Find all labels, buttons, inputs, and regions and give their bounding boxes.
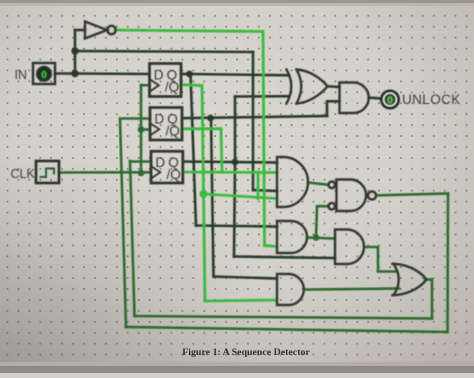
wire node A up to inverter input [74, 30, 77, 74]
XOR gate X1 [287, 70, 292, 104]
wire NAND output run right [376, 194, 448, 196]
svg-text:/Q: /Q [165, 80, 179, 95]
flip-flop FF1 labels [154, 67, 179, 94]
node B junction [71, 47, 78, 54]
node A junction [71, 70, 78, 77]
node J junction (FF1 /Q) [200, 190, 208, 198]
wire FF1 Q to XOR top input [190, 74, 290, 75]
wire clock stub to FF2 clock [141, 128, 150, 131]
wire feedback left vertical to FF2 D [120, 119, 126, 327]
wire node B branch right at y51 [75, 51, 253, 52]
flip-flop FF3 [151, 151, 183, 183]
wire FF3 Q branch to XOR bottom input [235, 95, 289, 98]
wire inverter net vertical [263, 32, 265, 246]
UNLOCK LED [381, 91, 398, 108]
AND gate A4 [335, 230, 364, 265]
svg-text:0: 0 [387, 94, 393, 106]
wire FF3 Q branch down [234, 162, 235, 257]
svg-text:D: D [154, 111, 164, 126]
wire AND3 out branch up to NAND bottom input [316, 206, 328, 237]
node G junction (clock at CLK run) [138, 170, 145, 177]
wire FF3 Q output run [183, 162, 277, 163]
wire AND5 output to OR bottom input [306, 289, 399, 290]
wire FF2 /Q output stub [182, 127, 221, 130]
wire feedback right vertical inner [431, 280, 434, 319]
top photo edge band [0, 0, 474, 3]
wire FF1 /Q output stub [181, 83, 202, 87]
wire OR output stub [425, 278, 432, 281]
wire feedback bottom run outer [126, 327, 448, 332]
node F junction (clock to FF2) [138, 126, 145, 133]
wire short green jog near AND2 [257, 172, 260, 199]
svg-text:/Q: /Q [166, 123, 180, 138]
wire inverter net to AND3 bottom input [265, 246, 278, 247]
wire FF3 /Q and FF2 /Q run to AND2 pin2 [183, 171, 277, 174]
flip-flop FF2 labels [154, 111, 179, 138]
wire XOR output to AND1 [328, 85, 340, 88]
wire node A to FF1 D input [75, 72, 150, 75]
wire AND2 output to NAND top input [308, 183, 328, 185]
wire stub to FF3 D input [130, 160, 151, 163]
inverter U1 [85, 22, 107, 39]
svg-text:UNLOCK: UNLOCK [402, 92, 461, 107]
wire FF1 /Q branch to AND2 pin4 [204, 194, 278, 199]
wire x253 corner to AND2 pin3 [253, 190, 277, 191]
wire FF2 Q step up [327, 101, 340, 116]
node D junction (FF2 Q) [207, 115, 214, 122]
node H junction (AND3 out) [313, 234, 320, 241]
wire FF1 /Q to AND5 bottom input [205, 300, 277, 301]
wire FF2 Q output run [182, 116, 327, 118]
svg-text:/Q: /Q [167, 167, 181, 182]
wire FF2 Q branch down [211, 118, 214, 277]
svg-text:Figure 1: A Sequence Detector: Figure 1: A Sequence Detector [182, 347, 310, 358]
wire FF2 /Q vertical [221, 129, 222, 172]
CLK pin [36, 161, 59, 183]
wire FF1 Q output stub [181, 73, 190, 76]
AND gate A3 [277, 221, 307, 253]
svg-text:D: D [155, 155, 165, 170]
wire clock vertical riser [140, 85, 143, 173]
bottom photo edge band [0, 366, 474, 373]
NAND gate N1 with input bubbles [337, 180, 367, 212]
node C junction (FF1 Q) [186, 71, 193, 78]
wire clock stub to FF1 clock [141, 84, 150, 87]
wire feedback right vertical outer [446, 194, 449, 333]
svg-text:CLK: CLK [11, 167, 36, 181]
svg-text:IN: IN [15, 68, 28, 82]
wire feedback left vertical to FF3 D [130, 161, 135, 316]
flip-flop FF3 labels [155, 155, 180, 182]
wire AND1 output to UNLOCK LED [369, 98, 382, 99]
wire stub to FF2 D input [120, 117, 150, 120]
svg-text:D: D [154, 67, 164, 82]
AND gate A2 (wide) [277, 157, 308, 207]
wire AND4 output step to OR top input [366, 247, 396, 272]
AND gate A5 [277, 274, 304, 305]
wire FF1 Q branch down [191, 74, 197, 226]
wire FF1 Q branch to AND3 top input [196, 226, 277, 227]
flip-flop FF2 [150, 108, 182, 141]
node E junction (FF3 Q) [232, 159, 239, 166]
wire inverter output run [115, 30, 263, 32]
flip-flop FF1 [150, 64, 182, 97]
wire CLK pin run [59, 171, 151, 174]
wire IN pin to node A [55, 72, 75, 75]
svg-text:0: 0 [41, 70, 47, 81]
wire AND3 output to AND4 top input [307, 238, 335, 239]
wire FF3 Q branch up [234, 97, 237, 163]
OR gate O1 [394, 264, 399, 295]
wire feedback bottom run inner [135, 316, 433, 319]
wire vertical x253 down [252, 52, 255, 190]
wire FF3 Q branch to AND4 bottom input [234, 257, 335, 259]
AND gate A1 (unlock) [340, 83, 369, 114]
wire FF1 /Q vertical [202, 86, 205, 302]
IN pin [33, 63, 55, 84]
wire FF2 Q branch to AND5 top input [214, 277, 278, 279]
wire node B to inverter U1 input [75, 29, 85, 32]
